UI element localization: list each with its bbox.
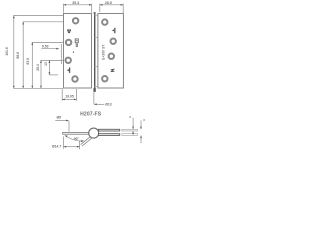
left dim extension row1 bbox=[23, 21, 64, 23]
hole L2 bbox=[66, 40, 71, 45]
dim 63.5 bbox=[31, 42, 33, 88]
dim 9.53 bbox=[41, 48, 59, 50]
hole L4 bbox=[72, 76, 77, 81]
left dim extension row4 bbox=[49, 74, 58, 76]
svg-text:88.6: 88.6 bbox=[16, 52, 20, 59]
svg-text:28.5: 28.5 bbox=[105, 1, 112, 5]
left dim extension top bbox=[13, 15, 63, 17]
flag mark left leaf bbox=[67, 67, 70, 73]
dim 13 bbox=[48, 60, 50, 75]
svg-text:Ø13: Ø13 bbox=[105, 103, 112, 107]
flag mark right leaf bbox=[112, 28, 115, 33]
hole L1 bbox=[73, 18, 78, 23]
hole L3 bbox=[66, 58, 71, 63]
hole R1 bbox=[102, 19, 107, 24]
leader dia 13 knuckle bbox=[94, 92, 104, 104]
left dim extension row3 bbox=[41, 59, 64, 61]
top dim left leaf 35.3 bbox=[64, 4, 92, 13]
knuckle top stub bbox=[94, 12, 96, 14]
swing angle arc 90 bbox=[65, 136, 84, 141]
squiggle mark right leaf bbox=[111, 69, 115, 71]
closed stack leaf bars dark bbox=[98, 129, 119, 135]
svg-text:H207-FS: H207-FS bbox=[80, 111, 102, 117]
svg-text:35.3: 35.3 bbox=[72, 1, 79, 5]
svg-text:9.53: 9.53 bbox=[42, 44, 49, 48]
svg-text:19.05: 19.05 bbox=[65, 95, 74, 99]
left dim extension row2 bbox=[32, 41, 64, 43]
svg-text:25.4: 25.4 bbox=[36, 64, 40, 71]
svg-text:63.5: 63.5 bbox=[26, 58, 30, 65]
svg-text:90°: 90° bbox=[74, 137, 80, 141]
svg-text:13: 13 bbox=[44, 62, 48, 66]
knuckle segment tick bbox=[94, 86, 98, 88]
svg-text:E+360 ST: E+360 ST bbox=[101, 45, 105, 60]
svg-text:Ø8: Ø8 bbox=[57, 115, 62, 119]
knuckle bottom stub bbox=[93, 88, 95, 92]
dim 101.6 bbox=[13, 16, 15, 89]
thickness dim 3 right bbox=[140, 120, 142, 129]
angled leaf stub bbox=[81, 136, 93, 146]
knuckle pin line bbox=[94, 12, 96, 92]
knuckle segment tick bbox=[94, 36, 98, 38]
knuckle segment tick bbox=[94, 66, 98, 68]
stamp left leaf bbox=[75, 39, 78, 47]
svg-text:101.6: 101.6 bbox=[5, 47, 9, 56]
left leaf bbox=[64, 14, 92, 89]
knuckle segment tick bbox=[94, 14, 98, 16]
closed stack leaf bars light bbox=[122, 129, 138, 135]
small dot left leaf bbox=[73, 52, 74, 53]
cert icon left leaf bbox=[67, 29, 71, 33]
hole R3 bbox=[109, 54, 114, 59]
bottom dim dia 14.7 bbox=[64, 136, 80, 149]
dim 25.4 bbox=[40, 60, 42, 88]
svg-text:Ø14.7: Ø14.7 bbox=[52, 145, 61, 149]
hole R4 bbox=[102, 76, 107, 81]
side view knuckle circle bbox=[89, 128, 99, 138]
dim 88.6 bbox=[22, 22, 24, 89]
dim 19.05 bbox=[62, 89, 76, 101]
left dim extension bottom bbox=[13, 87, 63, 89]
thickness dim 3 left bbox=[132, 118, 134, 130]
hole R2 bbox=[111, 39, 116, 44]
right leaf bbox=[98, 14, 124, 89]
top dim right leaf 28.5 bbox=[100, 4, 123, 13]
side view open leaf bar bbox=[63, 132, 90, 134]
